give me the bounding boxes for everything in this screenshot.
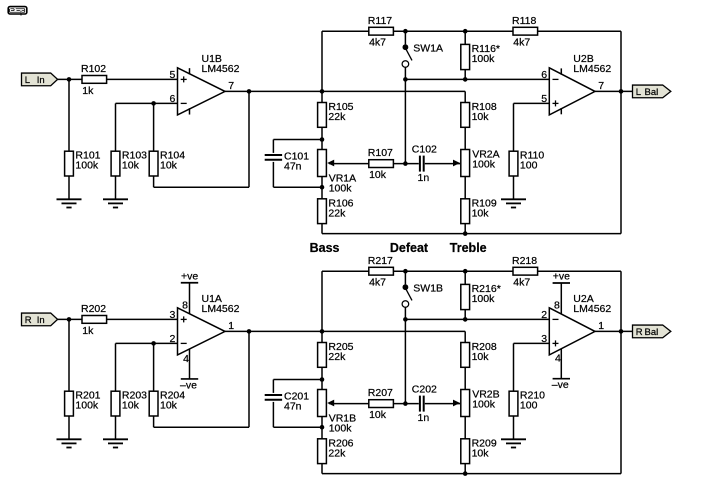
wire: input node down to R101: [68, 79, 70, 151]
node: feedback joins output: [247, 329, 252, 334]
node: input junction: [67, 317, 72, 322]
op-amp U1B: [169, 53, 239, 115]
wire: inverting input row: [116, 102, 178, 104]
wire: R102 to op-amp + input: [107, 78, 178, 80]
svg-text:3: 3: [169, 309, 175, 321]
svg-text:Bal: Bal: [645, 327, 659, 338]
resistor R105: [318, 101, 354, 127]
svg-text:100k: 100k: [75, 160, 99, 172]
node: output to bass network: [320, 329, 325, 334]
wire: node down to R204: [153, 343, 155, 391]
svg-text:47n: 47n: [284, 400, 302, 412]
ground: [57, 439, 82, 447]
svg-text:1n: 1n: [418, 412, 430, 424]
ground: [501, 439, 526, 447]
svg-text:10k: 10k: [160, 160, 178, 172]
wire: bass chain: [321, 91, 323, 102]
svg-text:R218: R218: [512, 255, 537, 267]
svg-text:R217: R217: [368, 255, 393, 267]
wire: input node down to R201: [68, 319, 70, 391]
wire: top rail middle segment: [393, 30, 513, 32]
svg-text:4k7: 4k7: [369, 37, 386, 49]
svg-text:R118: R118: [512, 15, 536, 27]
op-amp U1A: [169, 270, 239, 391]
svg-text:100: 100: [520, 400, 538, 412]
resistor R104: [149, 150, 185, 176]
svg-text:LM4562: LM4562: [202, 63, 240, 75]
resistor R118: [512, 15, 538, 49]
node: output to bass network: [320, 89, 325, 94]
node: inverting input junction: [151, 341, 156, 346]
resistor R204: [149, 390, 185, 416]
wire: down to R203: [115, 343, 117, 391]
potentiometer VR2A: [453, 148, 500, 176]
svg-text:In: In: [37, 315, 45, 326]
node: inverting input junction: [151, 101, 156, 106]
svg-text:22k: 22k: [328, 447, 346, 459]
node: feedback joins output: [247, 89, 252, 94]
wire: R110 to ground: [513, 176, 515, 199]
svg-text:Bass: Bass: [310, 241, 340, 255]
output tag R Bal: [633, 325, 671, 338]
resistor R107: [368, 147, 394, 181]
resistor R201: [65, 390, 101, 416]
svg-text:+ve: +ve: [181, 270, 198, 282]
wire: C101 top branch: [273, 139, 322, 141]
svg-text:100k: 100k: [472, 158, 496, 170]
resistor R106: [318, 197, 354, 223]
svg-text:10k: 10k: [122, 160, 140, 172]
svg-text:LM4562: LM4562: [202, 303, 240, 315]
wire: up to top feedback rail: [321, 31, 323, 91]
wire: switch pole down to tone network: [404, 67, 406, 163]
wire: bottom rail: [322, 233, 621, 235]
wire: op-amp output row: [225, 330, 465, 332]
node: bass pot bottom: [320, 425, 325, 430]
svg-text:C202: C202: [412, 383, 437, 395]
svg-text:8: 8: [554, 299, 560, 311]
svg-text:7: 7: [598, 80, 604, 92]
resistor R101: [65, 150, 101, 176]
svg-text:LM4562: LM4562: [573, 303, 611, 315]
wire: R101 to ground: [68, 176, 70, 199]
resistor R218: [512, 255, 538, 289]
wire: r6 to bottom rail: [321, 224, 323, 234]
wire: defeat row to op-amp 2 inverting input: [405, 78, 549, 80]
wire: top rail right segment: [538, 30, 621, 32]
capacitor C101: [265, 150, 310, 172]
wire: bass wiper to r7: [329, 163, 369, 165]
wire: top rail middle segment: [393, 270, 513, 272]
wire: R116 leads: [464, 31, 466, 44]
resistor R103: [111, 150, 147, 176]
svg-text:100k: 100k: [75, 400, 99, 412]
wire: L In tag to node: [58, 78, 83, 80]
wire: feedback bottom run: [153, 416, 155, 427]
svg-text:22k: 22k: [328, 351, 346, 363]
input tag L In: [22, 73, 58, 86]
wire: r7 to c2: [393, 403, 418, 405]
wire: C201 top branch: [273, 379, 322, 381]
svg-text:1: 1: [598, 320, 604, 332]
resistor R102: [81, 63, 107, 97]
svg-text:1k: 1k: [82, 85, 94, 97]
wire: op-amp 2 output: [595, 330, 633, 332]
wire: pot to r6: [321, 177, 323, 188]
wire: R210 to ground: [513, 416, 515, 439]
wire: treble chain: [464, 91, 466, 102]
node: switch to defeat row: [403, 77, 408, 82]
output tag L Bal: [633, 85, 671, 98]
svg-text:10k: 10k: [160, 400, 178, 412]
svg-text:C102: C102: [412, 143, 437, 155]
wire: R201 to ground: [68, 416, 70, 439]
wire: c2 to treble wiper: [425, 163, 460, 165]
wire: R In tag to node: [58, 318, 83, 320]
svg-text:L: L: [25, 75, 30, 86]
wire: r6 to bottom rail: [321, 464, 323, 474]
wire: r5 to pot: [321, 127, 323, 139]
svg-text:5: 5: [541, 93, 547, 105]
svg-text:2: 2: [541, 309, 547, 321]
svg-text:10k: 10k: [369, 409, 387, 421]
svg-text:Defeat: Defeat: [390, 241, 429, 255]
svg-text:4k7: 4k7: [513, 37, 530, 49]
switch SW1B: [402, 271, 443, 307]
wire: C101 bottom branch: [272, 162, 274, 187]
potentiometer VR2B: [453, 388, 500, 416]
node: rail to R116: [463, 29, 468, 34]
wire: pot to r6: [321, 417, 323, 428]
ESP logo: [8, 7, 27, 16]
resistor R110: [509, 150, 544, 176]
wire: op-amp 2 + input to R210: [514, 342, 550, 344]
node: bass pot bottom: [320, 185, 325, 190]
resistor R216: [461, 283, 501, 310]
wire: R202 to op-amp + input: [107, 318, 178, 320]
svg-text:10k: 10k: [472, 351, 490, 363]
potentiometer VR1A: [318, 150, 357, 195]
svg-text:Treble: Treble: [450, 241, 487, 255]
svg-text:100k: 100k: [472, 293, 496, 305]
node: output junction: [619, 329, 624, 334]
op-amp U2A: [541, 270, 611, 391]
svg-text:+ve: +ve: [553, 270, 570, 282]
wire: op-amp 2 + input to R110: [514, 102, 550, 104]
svg-text:SW1B: SW1B: [413, 282, 443, 294]
svg-text:R: R: [636, 327, 643, 338]
svg-text:10k: 10k: [472, 447, 490, 459]
svg-text:4k7: 4k7: [513, 277, 530, 289]
capacitor C201: [265, 390, 310, 412]
wire: R103 to ground: [115, 176, 117, 199]
wire: c2 to treble wiper: [425, 403, 460, 405]
wire: defeat row to op-amp 2 inverting input: [405, 318, 549, 320]
svg-text:4k7: 4k7: [369, 277, 386, 289]
wire: switch pole down to tone network: [404, 307, 406, 403]
svg-text:In: In: [37, 75, 45, 86]
resistor R209: [461, 437, 497, 463]
svg-text:4: 4: [183, 353, 189, 365]
potentiometer VR1B: [318, 390, 357, 435]
wire: C201 bottom branch: [272, 402, 274, 427]
ground: [103, 199, 128, 207]
wire: down to R103: [115, 103, 117, 151]
wire: right rail down to output node: [620, 271, 622, 473]
svg-text:10k: 10k: [122, 400, 140, 412]
svg-text:R102: R102: [81, 63, 106, 75]
svg-text:3: 3: [541, 333, 547, 345]
wire: bottom rail: [322, 473, 621, 475]
svg-text:100: 100: [520, 160, 538, 172]
wire: bass wiper to r7: [329, 403, 369, 405]
resistor R206: [318, 437, 354, 463]
wire: inverting input row: [116, 342, 178, 344]
wire: treble chain: [464, 331, 466, 342]
wire: top rail left segment: [322, 270, 369, 272]
node: rail to switch: [403, 29, 408, 34]
svg-text:10k: 10k: [369, 169, 387, 181]
svg-text:R107: R107: [368, 147, 393, 159]
svg-text:R207: R207: [368, 387, 393, 399]
svg-text:5: 5: [169, 69, 175, 81]
svg-text:–ve: –ve: [552, 379, 569, 391]
svg-text:1k: 1k: [82, 325, 94, 337]
svg-text:6: 6: [169, 93, 175, 105]
wire: right rail down to output node: [620, 31, 622, 233]
ground: [103, 439, 128, 447]
svg-text:SW1A: SW1A: [413, 42, 443, 54]
node: r7 / c2 / switch junction: [403, 401, 408, 406]
input tag R In: [22, 313, 58, 326]
svg-text:10k: 10k: [472, 111, 490, 123]
resistor R208: [461, 341, 497, 367]
ground: [501, 199, 526, 207]
node: rail to switch: [403, 269, 408, 274]
wire: feedback bottom run: [153, 176, 155, 187]
svg-text:2: 2: [169, 333, 175, 345]
node: rail to R216: [463, 269, 468, 274]
switch SW1A: [402, 31, 443, 67]
svg-text:Bal: Bal: [645, 87, 659, 98]
svg-text:R117: R117: [368, 15, 392, 27]
svg-text:47n: 47n: [284, 160, 302, 172]
svg-text:100k: 100k: [472, 398, 496, 410]
svg-text:LM4562: LM4562: [573, 63, 611, 75]
node: switch to defeat row: [403, 317, 408, 322]
svg-text:4: 4: [555, 353, 561, 365]
resistor R109: [461, 197, 497, 223]
resistor R210: [509, 390, 545, 416]
svg-text:8: 8: [182, 299, 188, 311]
svg-text:R: R: [25, 315, 32, 326]
capacitor C102: [412, 143, 437, 184]
node: output junction: [619, 89, 624, 94]
wire: r5 to pot: [321, 367, 323, 379]
svg-text:22k: 22k: [328, 111, 346, 123]
svg-text:L: L: [636, 87, 641, 98]
node: bass pot top: [320, 377, 325, 382]
wire: node down to R104: [153, 103, 155, 151]
svg-text:1n: 1n: [418, 172, 430, 184]
wire: R216 leads: [464, 271, 466, 284]
ground: [57, 199, 82, 207]
node: bass pot top: [320, 137, 325, 142]
wire: up to top feedback rail: [321, 271, 323, 331]
wire: bass chain: [321, 331, 323, 342]
svg-text:7: 7: [228, 80, 234, 92]
svg-text:100k: 100k: [329, 422, 353, 434]
svg-text:–ve: –ve: [180, 379, 197, 391]
wire: top rail right segment: [538, 270, 621, 272]
wire: op-amp 2 output: [595, 90, 633, 92]
node: treble chain to bottom rail: [463, 231, 468, 236]
resistor R108: [461, 101, 497, 127]
node: R216 bottom to defeat row: [463, 317, 468, 322]
resistor R116: [461, 43, 500, 70]
node: r7 / c2 / switch junction: [403, 161, 408, 166]
resistor R217: [368, 255, 394, 289]
resistor R207: [368, 387, 394, 421]
node: input junction: [67, 77, 72, 82]
svg-text:10k: 10k: [472, 207, 490, 219]
svg-text:R202: R202: [81, 303, 106, 315]
wire: r7 to c2: [393, 163, 418, 165]
node: treble chain to bottom rail: [463, 471, 468, 476]
wire: op-amp output row: [225, 90, 465, 92]
svg-text:1: 1: [228, 320, 234, 332]
svg-text:100k: 100k: [329, 182, 353, 194]
resistor R202: [81, 303, 107, 337]
svg-text:6: 6: [541, 69, 547, 81]
resistor R203: [111, 390, 147, 416]
wire: top rail left segment: [322, 30, 369, 32]
capacitor C202: [412, 383, 437, 424]
wire: R203 to ground: [115, 416, 117, 439]
resistor R205: [318, 341, 354, 367]
op-amp U2B: [541, 53, 611, 115]
svg-text:100k: 100k: [472, 53, 496, 65]
node: R116 bottom to defeat row: [463, 77, 468, 82]
svg-text:22k: 22k: [328, 207, 346, 219]
resistor R117: [368, 15, 394, 49]
